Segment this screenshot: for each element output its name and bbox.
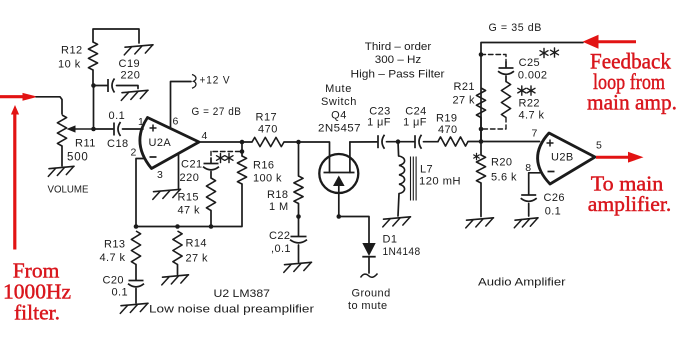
label R16b R18 [267,189,288,201]
label Q4 [331,110,347,122]
junction dot R18 bottom [296,214,301,219]
dashed link to C25 [481,55,506,63]
ground below R20 [466,218,494,228]
svg-text:R13: R13 [104,239,125,251]
svg-text:100 k: 100 k [253,173,282,185]
label R20 [491,157,512,169]
svg-text:470: 470 [258,124,278,136]
pin 3 wire [178,154,180,190]
label R21 [454,81,475,93]
junction dot dashed bottom [479,127,484,132]
label D1 [383,234,398,246]
svg-text:3: 3 [157,169,163,181]
resistor R14 [173,231,182,275]
label 220 for C21 [180,172,200,184]
label 2N5457 [318,123,361,135]
svg-text:C18: C18 [107,138,129,150]
capacitor C24 [398,135,438,149]
capacitor C23 [378,135,398,149]
svg-text:4.7 k: 4.7 k [519,110,545,122]
op-amp U2A [140,118,199,169]
pin 4 output wire [199,141,242,143]
resistor R22 [501,82,510,118]
svg-text:R15: R15 [178,192,199,204]
pin 8 wire to C26 [529,173,540,195]
resistor R18 [294,142,303,217]
svg-text:U2A: U2A [149,137,172,149]
red label From 1000Hz filter [3,259,71,325]
resistor R16 [211,142,247,227]
label 470 for R17 [258,124,278,136]
svg-text:120 mH: 120 mH [419,176,461,188]
label 0.1 for C20 [112,287,129,299]
svg-text:Ground: Ground [352,288,391,300]
label R15 [178,192,199,204]
capacitor C25 [498,62,514,82]
asterisks for R22 [518,86,535,95]
svg-text:1 μF: 1 μF [403,117,427,129]
svg-text:6: 6 [173,116,179,128]
inductor L7 [398,142,416,216]
red vertical arrow from 1000Hz filter [11,105,19,250]
label 5.6 k [491,172,517,184]
+12V supply brace [192,75,196,89]
junction dot R17 right [296,140,301,145]
svg-text:C21: C21 [181,159,203,171]
svg-text:R14: R14 [186,238,207,250]
label C18 [107,138,129,150]
label 100 k [253,173,282,185]
transistor Q4 [319,142,358,217]
svg-text:,0.1: ,0.1 [271,243,291,255]
label Audio Amplifier [478,277,566,289]
pin 4 label [202,130,208,142]
label R19 [436,113,457,125]
resistor R13 [131,231,140,265]
pin 6 label [173,116,179,128]
label G = 27 dB [192,106,242,118]
junction dot R15 node [209,224,214,229]
label Low noise dual preamplifier [149,304,314,316]
pin 1 label [138,116,144,128]
junction dot wiper node [91,127,96,132]
label 27 k for R21 [453,95,475,107]
svg-text:7: 7 [532,128,538,140]
svg-text:5: 5 [596,140,602,152]
svg-text:2N5457: 2N5457 [318,123,361,135]
label R12 [61,45,83,57]
svg-text:Audio Amplifier: Audio Amplifier [478,277,566,289]
resistor R17 [242,137,299,146]
junction dot R20 top [479,139,484,144]
label C25 [519,57,540,69]
svg-text:4: 4 [202,130,208,142]
label C19 [119,58,141,70]
feedback bus wire [136,226,211,228]
ground below C22 [284,262,312,272]
label Ground to mute [348,288,391,313]
label 0.1 for C22 [271,243,291,255]
dashed link R22 bottom [482,118,506,130]
red label To main amplifier [588,172,672,217]
junction dot upper [91,83,96,88]
label C24 [405,106,426,118]
label L7 [420,164,433,176]
capacitor C26 [521,195,537,216]
junction dot L7 node [396,139,401,144]
svg-text:R11: R11 [75,138,96,150]
asterisks for C21 [217,153,234,162]
svg-text:D1: D1 [383,234,398,246]
label 47 k [178,205,200,217]
wire R11 to ground [61,146,63,166]
label 10 k [58,59,81,71]
svg-text:0.1: 0.1 [112,287,129,299]
ground below C20 [120,303,148,313]
svg-text:1 M: 1 M [269,201,289,213]
label R13 [104,239,125,251]
svg-text:C19: C19 [119,58,141,70]
ground below R14 [162,275,189,285]
pin 7 label [532,128,538,140]
svg-text:220: 220 [121,70,141,82]
label High - Pass Filter [351,69,445,81]
svg-text:R21: R21 [454,81,475,93]
label 500 [67,152,89,164]
label Third - order [365,41,432,53]
svg-text:0.002: 0.002 [518,70,548,82]
label 1N4148 [383,246,421,258]
svg-text:1 μF: 1 μF [367,117,391,129]
label 4.7 k for R22 [519,110,545,122]
resistor R21 [476,88,485,142]
svg-text:R18: R18 [267,189,288,201]
svg-text:Switch: Switch [321,96,357,108]
ground below L7 [383,217,411,227]
label C21 [181,159,203,171]
pin 2 wire [136,159,144,227]
wire to U2B pin 7 [481,141,540,143]
wire R17 node to Q4 drain [299,142,330,173]
label G = 35 dB [489,22,543,34]
junction dot pin2 node [134,224,139,229]
svg-text:10 k: 10 k [58,59,81,71]
pin 8 label [525,162,531,174]
label 27 k for R14 [186,253,208,265]
svg-text:0.1: 0.1 [109,110,126,122]
svg-text:C20: C20 [103,275,124,287]
squiggle to mute [361,274,378,278]
svg-text:VOLUME: VOLUME [48,184,89,196]
label R17 [256,112,278,124]
svg-text:27 k: 27 k [453,95,475,107]
label U2 LM387 [214,288,271,300]
junction dot feedback top [479,52,484,57]
potentiometer R11 [57,115,94,146]
svg-text:R12: R12 [61,45,83,57]
pin 3 label [157,169,163,181]
svg-text:filter.: filter. [14,301,60,325]
svg-text:R20: R20 [491,157,512,169]
svg-text:8: 8 [525,162,531,174]
asterisk for R20 [474,153,480,159]
svg-text:High – Pass Filter: High – Pass Filter [351,69,445,81]
svg-text:220: 220 [180,172,200,184]
ground below C19 [121,90,148,100]
svg-text:2: 2 [131,147,137,159]
label 1 uF for C24 [403,117,427,129]
label 1 M [269,201,289,213]
svg-text:Q4: Q4 [331,110,347,122]
svg-text:27 k: 27 k [186,253,208,265]
wire Q4 to C23 [350,141,377,143]
svg-text:main amp.: main amp. [587,90,677,115]
label 0.1 for C18 [109,110,126,122]
label 220 for C19 [121,70,141,82]
label C22 [269,230,290,242]
junction dot dashed tap [240,149,245,154]
op-amp U2B [538,133,595,184]
red feedback arrow [583,35,637,49]
svg-text:Third – order: Third – order [365,41,432,53]
label 1 uF for C23 [367,117,391,129]
label 120 mH [419,176,461,188]
svg-text:470: 470 [438,124,458,136]
resistor R20 [476,142,485,217]
junction dot R14 node [175,224,180,229]
label R14 [186,238,207,250]
label Switch [321,96,357,108]
svg-text:L7: L7 [420,164,433,176]
svg-text:R16: R16 [253,160,274,172]
svg-text:C25: C25 [519,57,540,69]
label Mute [325,83,352,95]
ground below C26 [514,218,538,228]
svg-text:4.7 k: 4.7 k [100,252,126,264]
label C26 [544,192,565,204]
svg-text:C22: C22 [269,230,290,242]
label 0.002 [518,70,548,82]
red input arrow from 1000Hz filter [0,93,38,101]
svg-text:C26: C26 [544,192,565,204]
svg-text:Mute: Mute [325,83,352,95]
red label Feedback loop from main amp [587,49,677,115]
svg-text:to mute: to mute [348,300,388,312]
svg-text:G = 27 dB: G = 27 dB [192,106,242,118]
wire input to volume pot [36,97,62,114]
label 470 for R19 [438,124,458,136]
capacitor C22 [290,217,307,263]
label C23 [369,106,390,118]
resistor R12 [88,29,139,86]
svg-text:47 k: 47 k [178,205,200,217]
svg-text:+12 V: +12 V [200,75,231,87]
label +12 V [200,75,231,87]
wire gate node to D1 [339,217,369,244]
label 4.7 k for R13 [100,252,126,264]
svg-text:500: 500 [67,152,89,164]
label R22 [519,98,540,110]
asterisks for C25 [540,48,559,58]
svg-text:R19: R19 [436,113,457,125]
svg-text:300 – Hz: 300 – Hz [375,54,422,66]
resistor R19 [438,137,481,146]
label C20 [103,275,124,287]
svg-text:U2B: U2B [551,152,574,164]
red output arrow [596,152,644,163]
feedback wire from main amp [481,43,583,142]
svg-text:Low noise dual preamplifier: Low noise dual preamplifier [149,304,314,316]
label VOLUME [48,184,89,196]
svg-text:G = 35 dB: G = 35 dB [489,22,543,34]
node A vertical wire [93,86,95,130]
pin 2 label [131,147,137,159]
junction dot U2A output [240,140,245,145]
capacitor C18 [94,122,144,136]
ground below R11 [48,166,74,176]
label 300 - Hz [375,54,422,66]
ground below pin 3 [153,189,181,199]
capacitor C20 [128,265,144,304]
pin 5 label [596,140,602,152]
svg-text:R22: R22 [519,98,540,110]
label R11 [75,138,96,150]
svg-text:R17: R17 [256,112,278,124]
label 0.1 for C26 [545,206,562,218]
pin 6 wire to +12V [171,82,192,128]
ground above right of R12 [124,45,153,55]
svg-text:1N4148: 1N4148 [383,246,421,258]
capacitor C19 [94,79,139,93]
capacitor C21 [203,158,219,178]
svg-text:5.6 k: 5.6 k [491,172,517,184]
svg-text:amplifier.: amplifier. [588,192,672,216]
label R16 [253,160,274,172]
diode D1 [362,243,375,273]
junction dot Q4 gate node [337,214,342,219]
resistor R15 [206,178,215,227]
svg-text:0.1: 0.1 [545,206,562,218]
dashed link to C21 [211,152,240,159]
svg-text:U2 LM387: U2 LM387 [214,288,271,300]
